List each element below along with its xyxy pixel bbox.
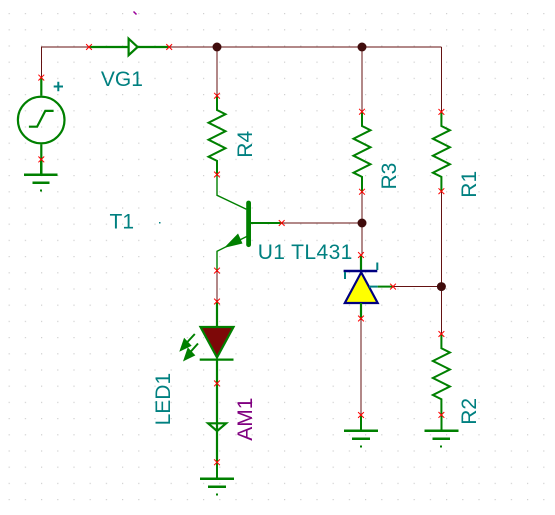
artifact purple mark xyxy=(134,12,137,15)
LED LED1 xyxy=(200,302,234,384)
svg-text:VG1: VG1 xyxy=(101,68,143,91)
pin marker U1 cathode xyxy=(358,252,364,258)
pin marker VG1 ground xyxy=(38,157,44,163)
shunt regulator U1 TL431 xyxy=(344,255,393,319)
pin marker R3 top xyxy=(359,109,365,115)
svg-text:R2: R2 xyxy=(458,398,481,425)
svg-text:LED1: LED1 xyxy=(152,373,175,426)
svg-text:R3: R3 xyxy=(378,163,401,190)
wire R1 bottom to R2 top xyxy=(440,191,442,334)
artifact teal dot xyxy=(159,222,161,224)
pin marker R4 bottom xyxy=(214,172,220,178)
pin marker arrow left xyxy=(86,44,92,50)
pin marker U1 ground xyxy=(358,412,364,418)
wire emitter to LED xyxy=(216,271,218,302)
pin marker R2 bottom xyxy=(439,412,445,418)
wire VG1 top to corner xyxy=(41,47,89,78)
pin marker VG1 top xyxy=(38,75,44,81)
svg-text:U1 TL431: U1 TL431 xyxy=(258,241,353,264)
pin marker arrow right xyxy=(166,44,172,50)
pin marker AM1 bottom xyxy=(214,459,220,465)
pin marker R2 top xyxy=(439,331,445,337)
resistor R4 xyxy=(209,96,226,175)
resistor R1 xyxy=(433,112,450,191)
junction node top R3 xyxy=(358,43,367,52)
pin marker T1 base xyxy=(279,220,285,226)
ground below R2 xyxy=(424,415,458,447)
pin marker R1 bottom xyxy=(439,188,445,194)
wire top corner to R1 xyxy=(440,47,442,112)
resistor R2 xyxy=(433,334,450,415)
ground below AM1 xyxy=(200,462,234,494)
svg-text:R1: R1 xyxy=(458,171,481,198)
pin marker R1 top xyxy=(439,109,445,115)
wire U1 ref to node xyxy=(393,286,441,288)
junction node base/R3 xyxy=(358,219,367,228)
wire R3 bottom to U1 cathode xyxy=(361,192,363,255)
pin marker R4 top xyxy=(214,93,220,99)
svg-text:T1: T1 xyxy=(110,211,135,234)
svg-text:R4: R4 xyxy=(234,131,257,158)
VG1 plus sign xyxy=(54,82,63,91)
wire top horizontal xyxy=(169,46,441,48)
pin marker LED top xyxy=(214,299,220,305)
wire top to R3 xyxy=(361,47,363,112)
VG1 output arrow xyxy=(89,39,169,56)
wire xyxy=(41,47,441,415)
transistor T1 xyxy=(217,175,282,271)
LED1 emission arrows xyxy=(181,334,198,360)
pin marker LED bottom xyxy=(214,381,220,387)
resistor R3 xyxy=(354,112,371,192)
ammeter AM1 xyxy=(208,383,226,462)
svg-text:AM1: AM1 xyxy=(234,398,257,441)
wire base to node xyxy=(282,222,362,224)
pin marker U1 anode xyxy=(358,316,364,322)
wire top to R4 xyxy=(216,47,218,96)
pin marker R3 bottom xyxy=(359,189,365,195)
junction node ref/R1 xyxy=(437,282,446,291)
ground below VG1 xyxy=(24,159,58,190)
voltage source VG1 xyxy=(18,78,65,160)
wire U1 anode to ground xyxy=(360,319,362,416)
pin marker U1 ref xyxy=(390,284,396,290)
pin marker T1 emitter xyxy=(214,268,220,274)
ground below U1 xyxy=(344,415,378,447)
junction node top R4 xyxy=(213,43,222,52)
